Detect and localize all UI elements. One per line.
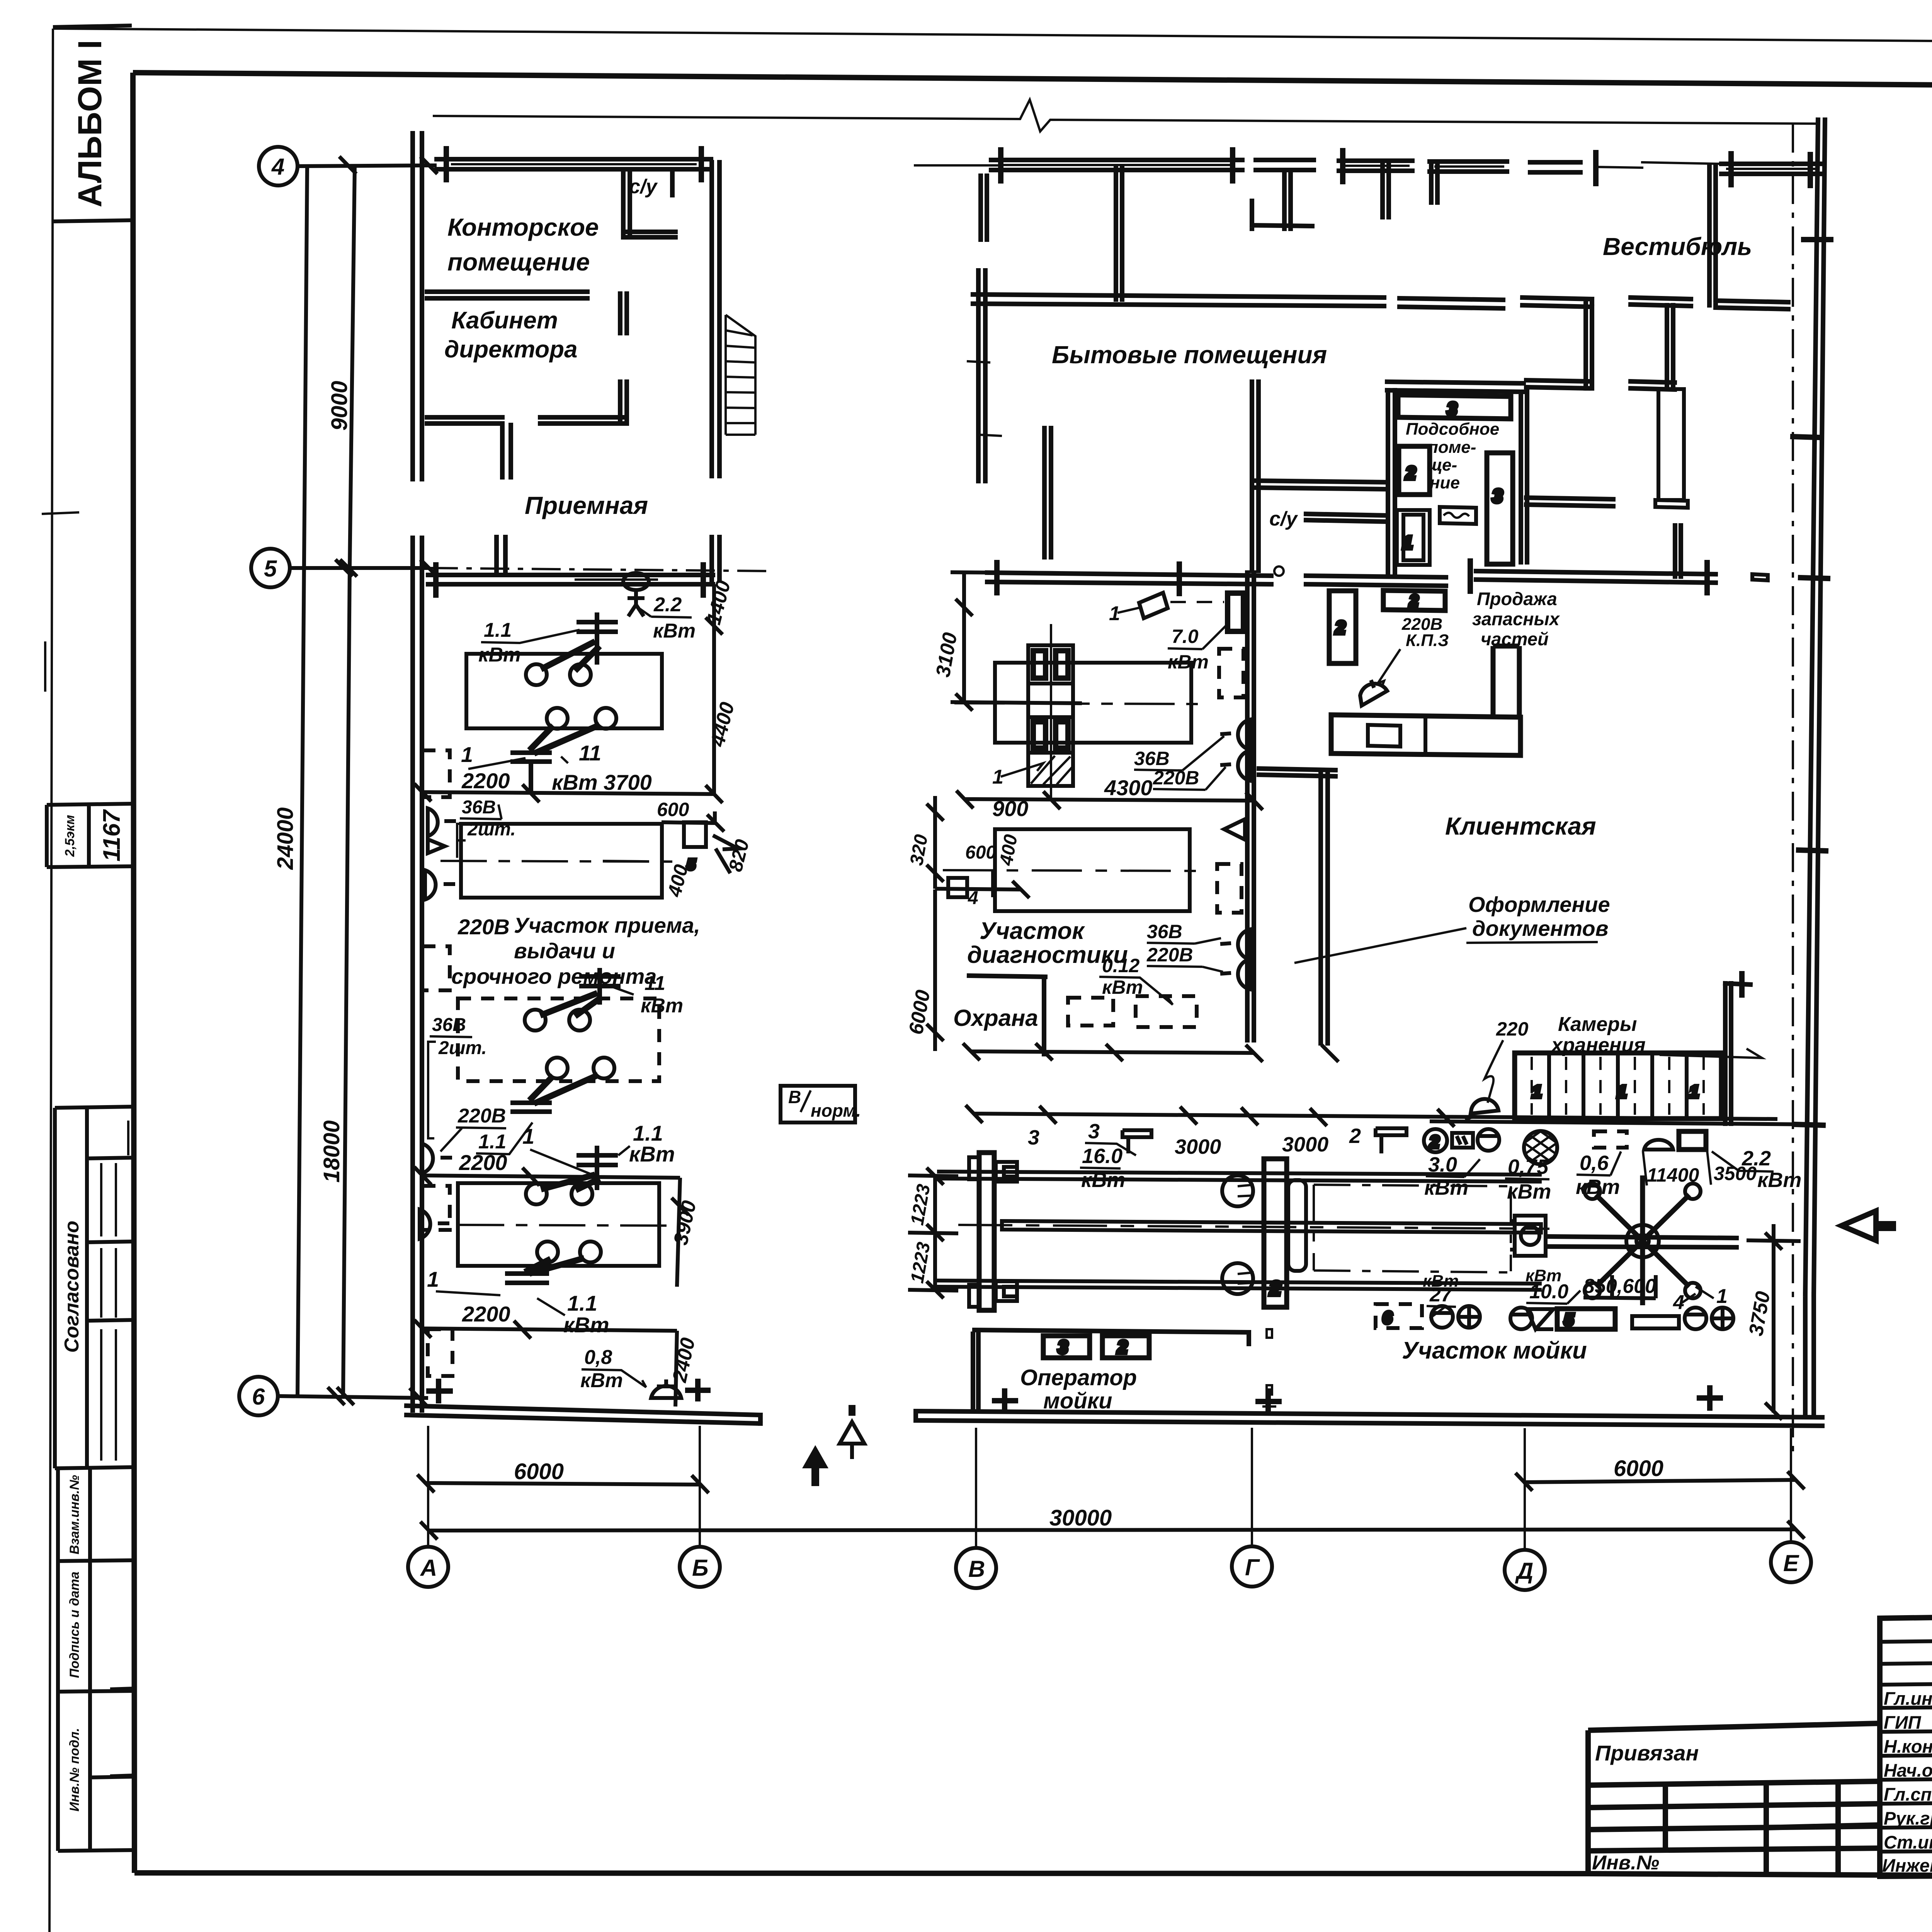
diagnostics bench 1 [954,663,1202,743]
svg-text:документов: документов [1472,916,1609,940]
svg-text:Взам.инв.№: Взам.инв.№ [67,1475,82,1554]
south wall household grid5 [987,561,1768,594]
label 1.1kw lift1 [478,619,580,666]
left wall lamps and boxes [420,750,456,1376]
svg-text:Подсобное: Подсобное [1406,420,1499,439]
dim 2400 [668,1331,699,1406]
wash dim row [966,1105,1801,1203]
svg-text:кВт: кВт [1081,1168,1125,1192]
svg-text:ние: ние [1430,473,1460,492]
svg-text:кВт: кВт [1757,1168,1801,1192]
dim 24000 vertical [273,166,307,1396]
svg-text:6000: 6000 [1614,1456,1663,1481]
labels 36v 220v diag upper [1134,736,1226,790]
operator room boxes [1043,1336,1149,1358]
household corridor south wall [973,294,1503,308]
svg-text:Клиентская: Клиентская [1445,812,1596,840]
svg-text:кВт: кВт [1168,651,1209,673]
svg-text:кВт: кВт [1102,976,1143,998]
svg-text:0,6: 0,6 [1580,1151,1609,1175]
label 11kw lift3 [603,972,683,1017]
label 220v lift4 [440,1105,532,1154]
reception south wall grid5 [428,526,1681,595]
svg-text:1: 1 [1403,532,1413,553]
dim 600 400 diag2 [935,833,1029,908]
sidebar fold marks [42,512,79,692]
grid bubble 5 [251,549,773,587]
workbench 2 [440,822,706,898]
dome lamp storage [1465,1099,1498,1120]
svg-text:1.1: 1.1 [478,1131,506,1153]
sprinkler top [623,573,649,616]
svg-text:кВт: кВт [1507,1180,1551,1203]
west exterior wall left block [413,133,422,1410]
svg-text:3: 3 [1447,399,1457,419]
svg-text:6000: 6000 [514,1459,564,1484]
svg-text:Гл.инж.: Гл.инж. [1884,1688,1932,1709]
dashed box 3 diag lower [1217,864,1242,913]
svg-text:18000: 18000 [319,1120,344,1182]
title block signature table frame [1880,1614,1932,1876]
svg-text:1: 1 [427,1267,439,1291]
wash dim row symbols [1122,1128,1473,1153]
svg-text:мойки: мойки [1043,1388,1112,1413]
dim 18000 vertical [319,560,357,1405]
dim 1223 1223 [907,1168,958,1298]
triangle diag [1224,819,1245,840]
south wall washing grid6 [760,1388,1822,1426]
svg-text:4: 4 [968,888,978,908]
svg-text:кВт: кВт [580,1369,623,1392]
svg-text:кВт: кВт [1424,1176,1468,1199]
utility small sign box [1440,507,1476,524]
svg-text:2: 2 [1349,1124,1361,1148]
svg-text:24000: 24000 [273,807,298,870]
dim 320 [906,796,944,889]
workbench 1 [466,654,662,728]
car lift 1 [526,612,618,685]
conveyor upper rail [937,1172,1542,1182]
washing north boundary [1430,1121,1814,1124]
dim 6000 right bottom [1515,1456,1804,1491]
svg-text:30000: 30000 [1049,1505,1112,1531]
svg-text:кВт: кВт [629,1142,675,1166]
svg-text:1: 1 [461,742,473,767]
svg-text:с/у: с/у [1269,508,1298,530]
svg-text:К.П.З: К.П.З [1406,631,1449,650]
sales lamp [1360,680,1387,706]
svg-text:Охрана: Охрана [953,1005,1038,1031]
svg-text:ГИП: ГИП [1884,1712,1922,1733]
label 36v 2sht upper [457,797,516,858]
lamps diag upper [1220,719,1250,781]
svg-text:кВт: кВт [1526,1266,1561,1285]
svg-text:2: 2 [1335,617,1345,638]
svg-text:3: 3 [1028,1126,1039,1149]
north wall office block [437,149,711,180]
svg-text:1167: 1167 [99,809,125,862]
title block signature names [1882,1687,1932,1876]
svg-text:Камеры: Камеры [1558,1013,1637,1036]
v-norm box [781,1086,861,1122]
svg-text:2200: 2200 [462,1302,510,1326]
vestibule partition E-shape [1522,298,1613,506]
svg-text:2: 2 [1117,1337,1128,1357]
svg-text:1.1: 1.1 [484,619,512,641]
east exterior wall [1793,120,1831,1414]
dyno machine [1028,624,1073,800]
dashed boxes security [1068,996,1197,1027]
svg-text:220В: 220В [457,1105,506,1127]
svg-text:с/у: с/у [629,175,658,198]
dim 600 820 400 [657,799,753,899]
svg-text:220: 220 [1496,1018,1529,1040]
utility room box 1 [1397,510,1430,565]
diagnostics bench 2 [943,829,1202,911]
dim 30000 bottom [420,1505,1804,1539]
svg-text:3000: 3000 [1175,1135,1221,1158]
label 36v 2sht lower [428,1015,487,1138]
svg-text:11: 11 [645,972,665,995]
sales zone tall box 2 [1329,591,1356,663]
svg-text:Инженер: Инженер [1882,1855,1932,1876]
north wall household block [991,150,1820,185]
svg-text:0,75: 0,75 [1508,1155,1549,1179]
camera symbol [1139,593,1243,631]
svg-text:36В: 36В [1134,748,1170,769]
car lift 2 [510,708,616,792]
vestibule partition I-shape [1631,298,1691,508]
svg-text:Оператор: Оператор [1020,1365,1137,1390]
security room walls [969,976,1045,1054]
dim line diag bottom [963,1043,1338,1062]
svg-text:поме-: поме- [1428,438,1476,457]
axis E dash-dot vertical [1792,124,1794,1457]
svg-text:2.2: 2.2 [653,594,682,616]
utility room shelf 3 [1398,395,1511,419]
svg-text:Ст.инж: Ст.инж [1884,1832,1932,1852]
svg-text:Нач.отд.: Нач.отд. [1884,1760,1932,1781]
privyazan box [1588,1723,1880,1876]
svg-text:В: В [788,1087,801,1107]
svg-text:кВт: кВт [641,995,683,1017]
spray wheel [1547,1175,1739,1305]
svg-text:36В: 36В [462,797,496,818]
ramp arrows bottom [802,1405,864,1486]
svg-text:директора: директора [444,336,578,363]
svg-text:2: 2 [1409,592,1418,609]
dim 6000 diag vertical [905,889,944,1051]
labels 36v 220v diag lower [1146,921,1223,972]
sidebar soglasovano box [55,1107,133,1468]
dim 3900 [670,1178,701,1287]
south wall left block grid6 [406,1381,760,1423]
diagnostics east wall [1247,573,1254,1040]
stairs [726,315,755,435]
storage wall L [1725,974,1750,1124]
svg-text:900: 900 [992,796,1028,821]
svg-text:Привязан: Привязан [1595,1741,1699,1765]
svg-text:кВт: кВт [563,1313,609,1337]
svg-text:220В: 220В [457,915,510,939]
svg-text:Рук.гр.: Рук.гр. [1884,1808,1932,1828]
grid bubble 6 [239,1377,428,1415]
svg-text:6: 6 [252,1384,265,1410]
svg-text:2шт.: 2шт. [467,819,516,840]
dim 2200 3700 lift2 [414,741,723,803]
svg-text:Вестибюль: Вестибюль [1603,233,1752,260]
conveyor left fixture [969,1153,1017,1310]
wash north equipment row [1478,1113,1706,1186]
car lift 5 [526,1146,618,1204]
washer square fixture [1510,1216,1546,1256]
svg-text:кВт: кВт [1576,1175,1620,1199]
svg-text:5: 5 [1564,1310,1574,1329]
conveyor lower rail [937,1281,1542,1290]
svg-text:0.12: 0.12 [1102,955,1140,976]
su room office [623,170,675,237]
svg-text:Продажа: Продажа [1477,588,1557,609]
workbench 4 [458,1183,680,1266]
dim 3100 diag [932,572,1082,711]
svg-text:2: 2 [1269,1277,1281,1300]
svg-text:3.0: 3.0 [1428,1153,1457,1176]
svg-text:кВт: кВт [1423,1272,1459,1291]
utility room walls [1387,382,1527,576]
svg-text:2: 2 [1429,1133,1439,1151]
svg-text:Оформление: Оформление [1468,892,1610,917]
dashed box 3 diag upper [1219,649,1243,697]
dim 9000 vertical [327,166,355,568]
svg-text:помещение: помещение [447,248,590,276]
svg-text:запасных: запасных [1472,609,1560,629]
sales zone shelf 2 [1383,590,1445,611]
svg-text:Бытовые помещения: Бытовые помещения [1052,341,1327,369]
car lift 6 [505,1242,601,1283]
svg-text:Участок мойки: Участок мойки [1402,1337,1587,1364]
dim 3750 [1745,1224,1801,1420]
household west wall lower [968,270,1001,481]
sales counter [1331,646,1520,755]
svg-text:16.0: 16.0 [1082,1145,1122,1168]
svg-text:6: 6 [1383,1308,1392,1327]
grid bubble 4 [259,147,1001,185]
svg-text:850,600: 850,600 [1583,1275,1656,1298]
lamp bottom left block [651,1379,681,1398]
svg-text:А: А [420,1555,437,1581]
svg-text:частей: частей [1481,629,1549,649]
sidebar stamp 1167 [47,804,132,867]
sidebar inventory table [58,1468,133,1851]
svg-text:11400: 11400 [1647,1164,1699,1186]
svg-text:3: 3 [1058,1337,1068,1357]
svg-text:Е: Е [1783,1550,1799,1576]
conveyor mid station [1222,1159,1306,1307]
household block inner walls verticals [981,163,1788,309]
utility room box 2 [1399,446,1430,495]
svg-text:5: 5 [264,556,277,582]
svg-text:1: 1 [1532,1082,1541,1101]
conveyor center track [958,1221,1549,1233]
svg-text:срочного ремонта: срочного ремонта [451,964,656,988]
svg-text:кВт: кВт [653,620,696,642]
svg-text:Г: Г [1245,1554,1260,1580]
svg-text:выдачи и: выдачи и [514,939,615,963]
workbench 3 dashed [458,998,659,1081]
svg-text:3000: 3000 [1282,1133,1328,1156]
svg-text:Участок: Участок [980,918,1085,944]
svg-text:2шт.: 2шт. [438,1038,487,1058]
svg-text:0,8: 0,8 [584,1346,612,1369]
svg-text:3500: 3500 [1714,1163,1757,1184]
label 0.8kw bottom [580,1346,646,1392]
svg-text:1.1: 1.1 [567,1291,597,1315]
dim 4300 900 [956,776,1263,821]
svg-text:3: 3 [1492,486,1503,507]
svg-text:7.0: 7.0 [1172,626,1199,647]
sidebar album box [53,26,132,221]
svg-text:Гл.спец.: Гл.спец. [1884,1784,1932,1804]
svg-text:4300: 4300 [1104,776,1153,800]
svg-text:АЛЬБОМ I: АЛЬБОМ I [71,40,109,207]
svg-text:1: 1 [1689,1082,1699,1101]
svg-text:2200: 2200 [459,1150,507,1175]
wash bottom labels [1423,1266,1728,1318]
director office room [427,292,627,477]
svg-text:кВт 3700: кВт 3700 [552,770,652,794]
svg-text:Д: Д [1515,1558,1533,1584]
svg-text:11: 11 [579,741,601,765]
svg-text:9000: 9000 [327,381,352,430]
svg-text:Конторское: Конторское [447,213,599,241]
svg-text:2200: 2200 [461,769,510,793]
svg-text:Инв.№: Инв.№ [1592,1852,1659,1874]
svg-text:Согласовано: Согласовано [61,1221,83,1353]
client west wall [1259,769,1335,1043]
household inner walls lower [1044,382,1387,571]
grid bubbles bottom row [408,1426,1811,1590]
svg-text:Подпись и дата: Подпись и дата [67,1571,82,1678]
svg-text:1: 1 [522,1124,534,1148]
dim 2200 lift5 [414,1121,680,1185]
svg-text:36В: 36В [1147,921,1182,942]
svg-text:Н.контр.: Н.контр. [1884,1736,1932,1757]
storage lockers [1515,1053,1721,1119]
svg-text:В: В [968,1556,985,1582]
svg-text:хранения: хранения [1550,1034,1646,1056]
dim 6000 left bottom [417,1459,709,1493]
dim 2200 lift6 [414,1267,677,1338]
dim 1400 right of lift1 [702,578,735,794]
svg-text:600: 600 [965,842,996,863]
svg-text:4: 4 [271,154,284,180]
utility tall shelf 3 [1487,453,1513,564]
svg-text:Инв.№ подл.: Инв.№ подл. [67,1728,82,1812]
svg-text:1: 1 [1716,1285,1728,1308]
svg-text:1: 1 [1617,1082,1626,1101]
car outline dash-dot [1314,1185,1511,1272]
section arrow right [1842,1211,1876,1240]
svg-text:Б: Б [692,1555,708,1581]
svg-text:36В: 36В [432,1015,466,1035]
break line top [433,100,1816,131]
svg-text:Приемная: Приемная [525,492,648,519]
svg-text:3: 3 [1088,1120,1100,1143]
svg-text:2: 2 [1405,463,1416,483]
svg-text:Участок приема,: Участок приема, [514,913,700,937]
operator room walls [973,1329,1275,1410]
svg-text:кВт: кВт [478,644,521,666]
svg-text:ще-: ще- [1427,456,1457,474]
label 2.2kw top [637,594,696,642]
car lift 3 [525,968,621,1031]
svg-text:2,5экм: 2,5экм [63,815,77,857]
lamps diag lower [1220,929,1250,989]
car lift 4 [510,1058,614,1112]
svg-text:норм.: норм. [811,1100,861,1121]
east wall office block [712,162,719,580]
wash south equipment row [1376,1304,1733,1329]
svg-text:Кабинет: Кабинет [451,307,558,334]
svg-text:600: 600 [657,799,689,820]
svg-text:220В: 220В [1146,944,1193,966]
